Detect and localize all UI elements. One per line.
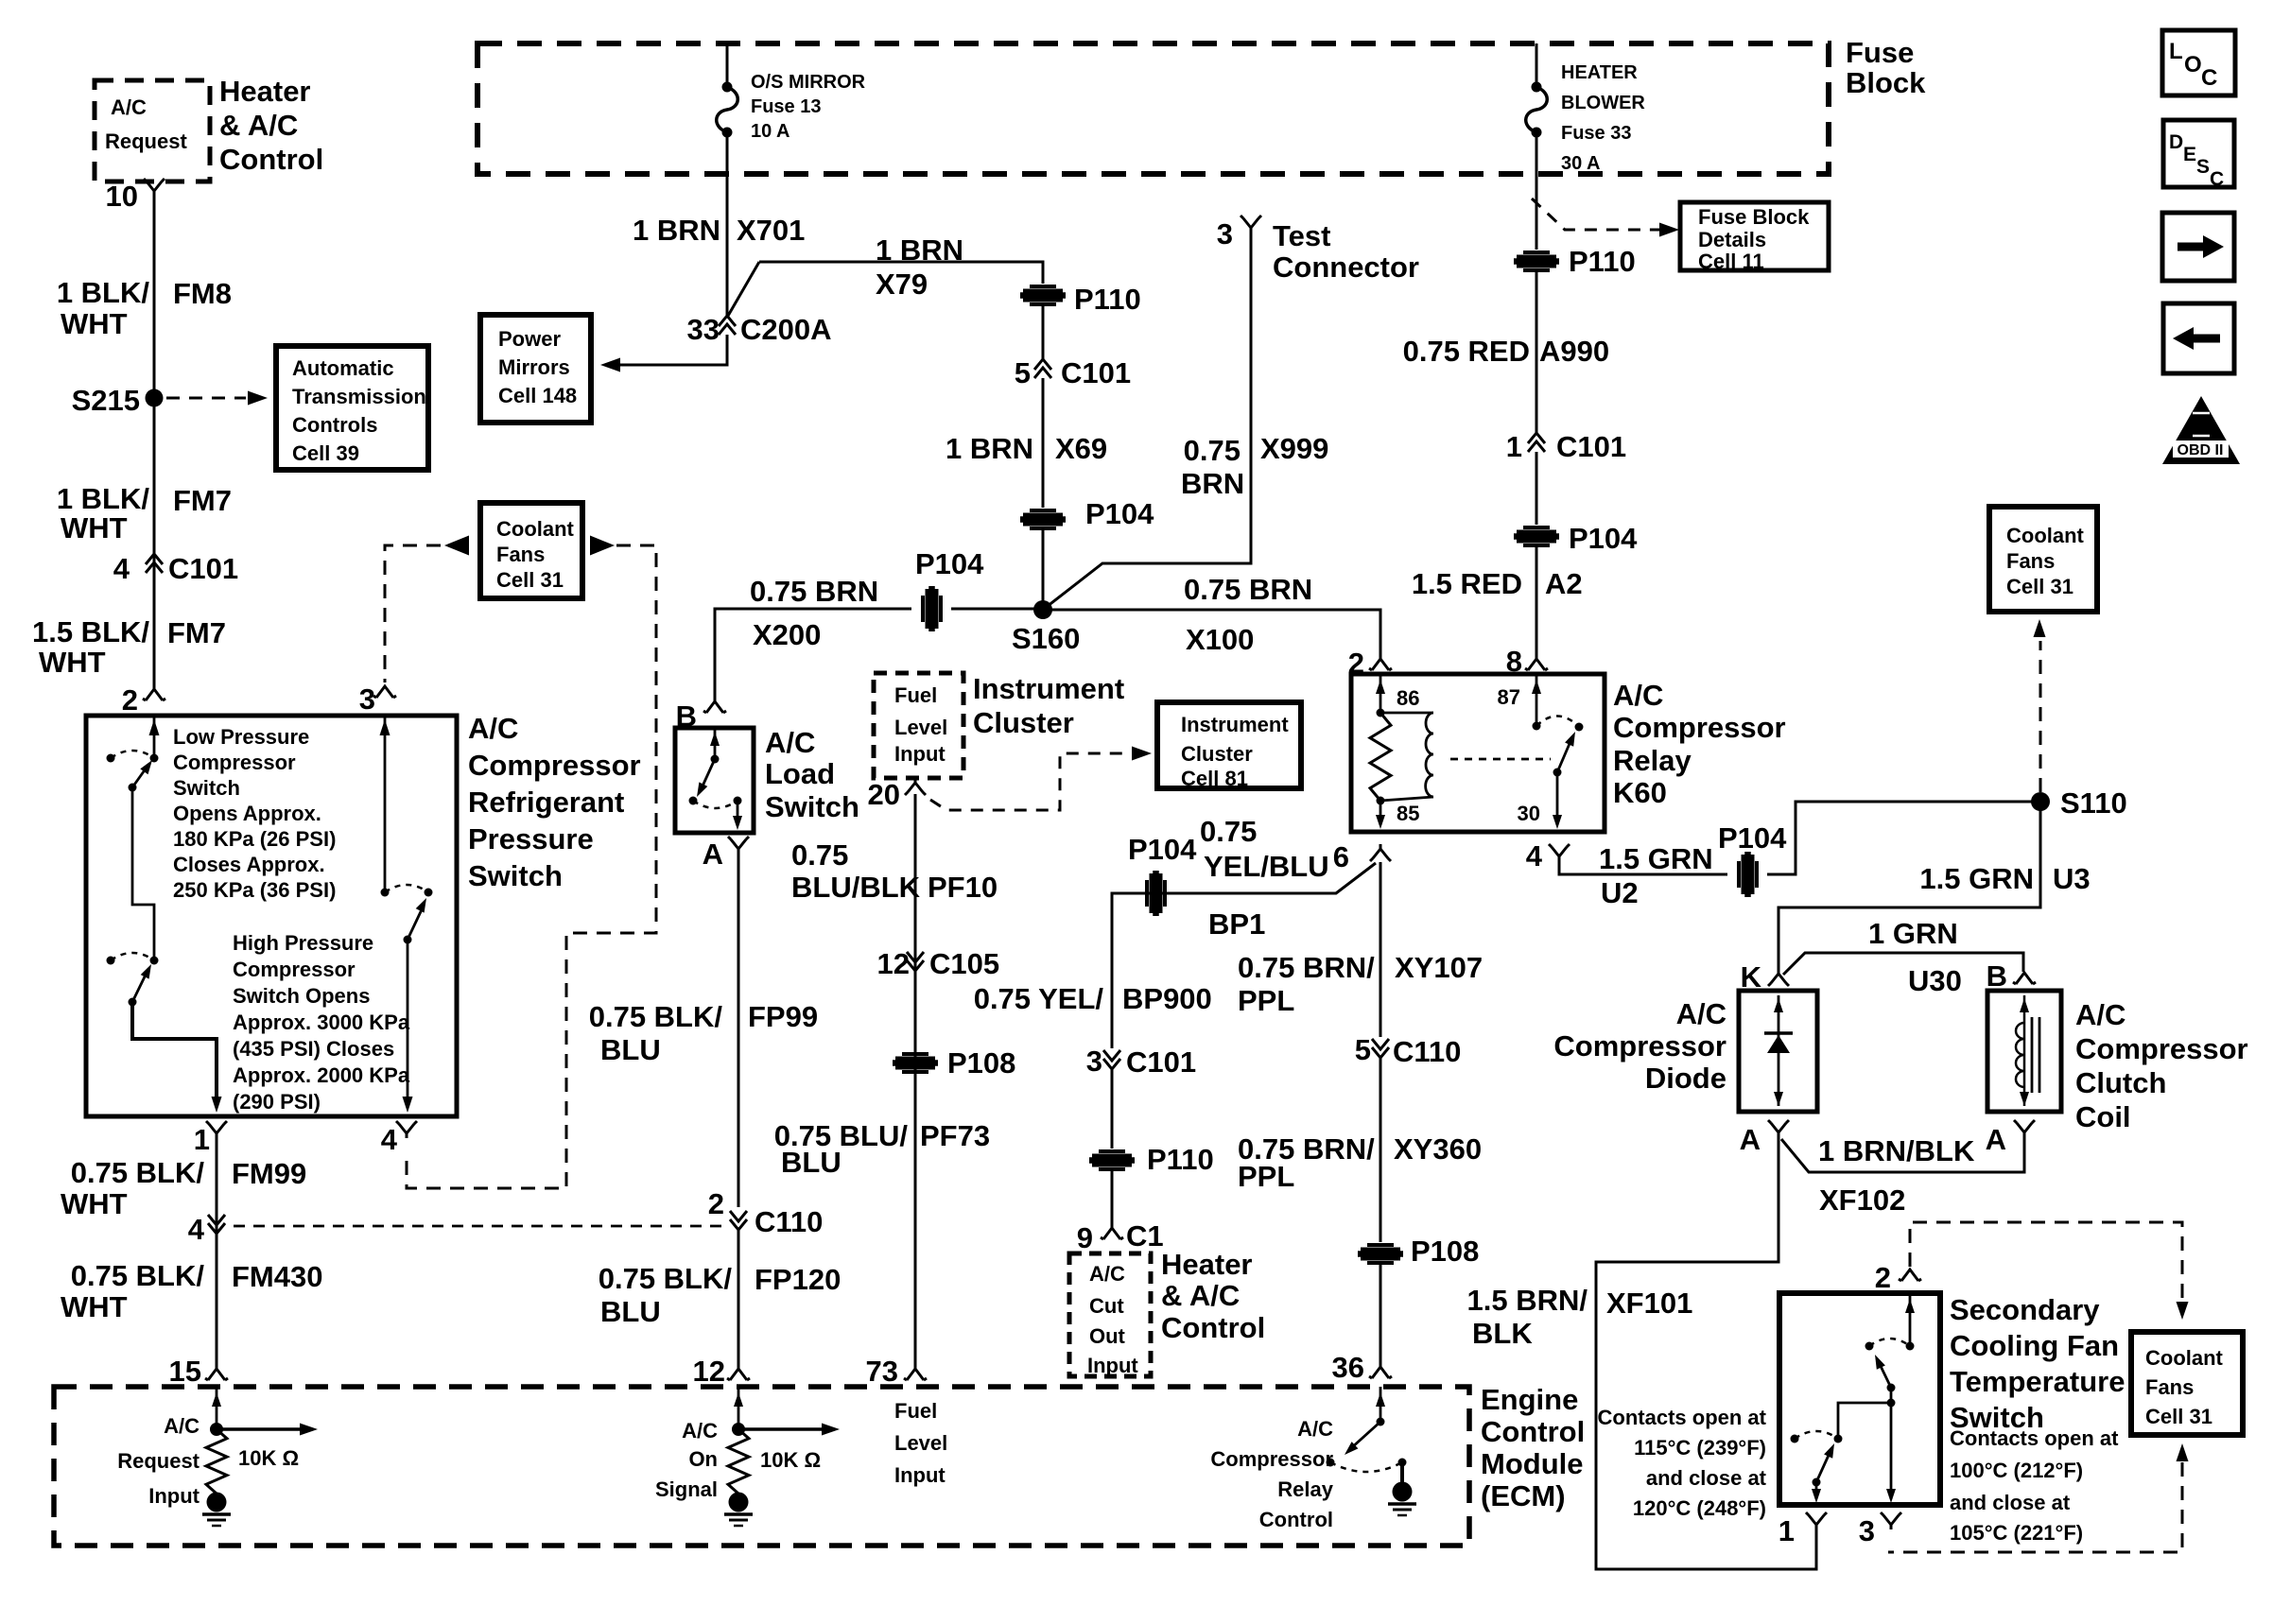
wire 0.75 BRN X999 xyxy=(1043,233,1251,610)
svg-text:On: On xyxy=(688,1447,718,1471)
node relay control contact left xyxy=(1327,1459,1335,1467)
svg-text:Cell 31: Cell 31 xyxy=(2145,1405,2212,1428)
wire fuse to P110 right xyxy=(1536,137,1538,250)
arrow A/C request input signal xyxy=(217,1424,318,1436)
dashed pointer fan switch to Coolant Fans xyxy=(1910,1222,2189,1320)
label 1 BLK/WHT FM7 xyxy=(57,482,232,544)
svg-text:Engine: Engine xyxy=(1481,1383,1578,1416)
pin 3 connector Test Connector (female) xyxy=(1241,216,1261,233)
svg-text:0.75 BLK/: 0.75 BLK/ xyxy=(71,1259,205,1292)
svg-text:A: A xyxy=(1986,1123,2006,1156)
wire 0.75 BLU/BLK PF10 fuel level xyxy=(914,794,917,1369)
label 0.75 BLU/BLK PF10 xyxy=(791,838,998,904)
svg-text:30: 30 xyxy=(1518,802,1540,825)
svg-text:4: 4 xyxy=(188,1213,205,1246)
box Automatic Transmission Controls Cell 39 xyxy=(276,346,428,470)
svg-text:II: II xyxy=(2196,416,2207,436)
label P104 above X200 xyxy=(915,547,984,580)
svg-text:12: 12 xyxy=(877,947,910,980)
component Fuse Block dashed box xyxy=(477,43,1829,174)
low pressure switch armature xyxy=(129,760,153,792)
label 85 xyxy=(1397,802,1419,825)
svg-text:Pressure: Pressure xyxy=(468,822,594,855)
node pin3 branch contact right xyxy=(425,889,433,897)
label S110 xyxy=(2060,786,2127,820)
wire XY360 to ECM pin 36 xyxy=(1379,1265,1382,1367)
svg-text:180 KPa (26 PSI): 180 KPa (26 PSI) xyxy=(173,827,336,851)
svg-text:Relay: Relay xyxy=(1277,1477,1333,1501)
pin 3 connector (male) xyxy=(373,686,396,698)
wire FM99/FM430 to ECM pin 15 xyxy=(216,1138,218,1369)
label Fuse Block Details Cell 11 xyxy=(1698,205,1810,273)
connector C110 pin 5 (in-line) xyxy=(1372,1039,1389,1058)
svg-text:4: 4 xyxy=(1526,839,1543,872)
node load switch pivot xyxy=(711,755,720,764)
label P108 XY360 xyxy=(1411,1235,1479,1268)
node relay coil top xyxy=(1377,709,1385,717)
label 33 C200A xyxy=(687,313,832,346)
svg-text:FM99: FM99 xyxy=(232,1157,306,1190)
connector C101 pin 3 (in-line) xyxy=(1103,1050,1120,1069)
node high pressure fixed contact right xyxy=(150,957,159,965)
svg-text:A/C: A/C xyxy=(1676,997,1726,1030)
grommet P110 on BP900 wire xyxy=(1089,1151,1135,1169)
label Fuel Level Input ECM xyxy=(894,1399,947,1487)
label pin B xyxy=(676,700,697,733)
svg-text:FM8: FM8 xyxy=(173,277,232,310)
wire fan switch to pin 1 xyxy=(1812,1482,1821,1503)
node low pressure fixed contact right xyxy=(150,754,159,763)
label pin 2 xyxy=(122,683,138,717)
wire FM8/FM7 vertical from Heater A/C Control to pressure switch xyxy=(153,196,156,689)
label pin 1 xyxy=(194,1123,210,1156)
svg-text:Coolant: Coolant xyxy=(2145,1346,2224,1370)
fan switch lower armature xyxy=(1813,1443,1835,1487)
svg-text:Control: Control xyxy=(1259,1508,1333,1531)
low pressure switch throw arc xyxy=(111,751,154,758)
diode element xyxy=(1764,995,1793,1106)
label Coolant Fans Cell 31 bottom xyxy=(2145,1346,2224,1428)
svg-text:Low Pressure: Low Pressure xyxy=(173,725,309,749)
connector C101 pin 1 (in-line) xyxy=(1528,433,1545,452)
svg-text:0.75 BLK/: 0.75 BLK/ xyxy=(589,1000,723,1033)
svg-text:0.75 YEL/: 0.75 YEL/ xyxy=(974,982,1104,1015)
svg-text:A/C: A/C xyxy=(765,726,815,759)
svg-text:0.75 BRN: 0.75 BRN xyxy=(1184,573,1312,606)
label A/C Compressor Refrigerant Pressure Switch xyxy=(468,712,641,892)
svg-text:S110: S110 xyxy=(2060,786,2127,820)
svg-text:S215: S215 xyxy=(72,384,140,417)
svg-text:Fuel: Fuel xyxy=(894,1399,937,1423)
label Power Mirrors Cell 148 xyxy=(498,327,577,407)
svg-text:Diode: Diode xyxy=(1645,1062,1726,1095)
svg-text:10K Ω: 10K Ω xyxy=(760,1448,821,1472)
svg-text:Cell 148: Cell 148 xyxy=(498,384,577,407)
label 1.5 RED A2 wire label xyxy=(1412,567,1583,600)
svg-text:Fuse Block: Fuse Block xyxy=(1698,205,1810,229)
label Fuse Block xyxy=(1846,36,1926,99)
box Power Mirrors Cell 148 xyxy=(480,315,591,423)
box Instrument Cluster Cell 81 xyxy=(1157,702,1301,788)
label 1.5 BLK/WHT FM7 xyxy=(32,615,226,679)
svg-text:Compressor: Compressor xyxy=(2075,1032,2248,1065)
wire relay coil terminal 85 xyxy=(1376,801,1385,829)
svg-text:Closes Approx.: Closes Approx. xyxy=(173,853,325,876)
label 0.75 BRN X200 xyxy=(750,575,878,651)
pin K connector (female) xyxy=(1768,969,1789,986)
label Secondary Cooling Fan Temperature Switch xyxy=(1950,1293,2126,1434)
grommet P104 on BP1 wire xyxy=(1147,871,1165,916)
svg-text:Fans: Fans xyxy=(496,543,545,566)
svg-text:Compressor: Compressor xyxy=(173,751,296,774)
svg-text:Level: Level xyxy=(894,716,947,739)
svg-text:U3: U3 xyxy=(2053,862,2091,895)
svg-text:Input: Input xyxy=(148,1484,200,1508)
node pin3 branch contact left xyxy=(381,889,390,897)
wire diagonal C200A to X79 run xyxy=(728,262,759,316)
svg-text:3: 3 xyxy=(1217,217,1233,251)
connector C101 pin 4 (in-line) xyxy=(146,554,163,573)
svg-text:Contacts open at: Contacts open at xyxy=(1598,1406,1767,1429)
component A/C Load Switch box xyxy=(675,728,754,833)
svg-text:250 KPa (36 PSI): 250 KPa (36 PSI) xyxy=(173,878,336,902)
label P104 xyxy=(1085,497,1154,530)
pin A connector clutch (female) xyxy=(2014,1120,2035,1137)
dashed pointer Coolant Fans to pin 4 xyxy=(407,545,656,1188)
wire low pressure to high pressure switch xyxy=(132,787,154,960)
label 1.5 GRN U3 xyxy=(1919,862,2090,895)
label P110 BP900 xyxy=(1147,1143,1214,1176)
svg-text:Automatic: Automatic xyxy=(292,356,394,380)
svg-text:B: B xyxy=(1987,959,2007,993)
label 0.75 BLU/ PF73 xyxy=(774,1119,990,1179)
load switch throw arc xyxy=(693,801,737,808)
label 86 xyxy=(1397,686,1419,710)
svg-text:P108: P108 xyxy=(1411,1235,1479,1268)
svg-text:WHT: WHT xyxy=(61,511,128,544)
pin3 switch armature xyxy=(404,898,427,944)
svg-text:85: 85 xyxy=(1397,802,1419,825)
svg-text:Compressor: Compressor xyxy=(233,958,356,981)
pin 3 connector fan switch (female) xyxy=(1881,1512,1901,1529)
svg-text:P104: P104 xyxy=(1569,522,1638,555)
label BP1 xyxy=(1208,907,1265,941)
svg-text:C101: C101 xyxy=(1126,1045,1196,1079)
svg-text:10K Ω: 10K Ω xyxy=(238,1446,299,1470)
svg-text:XY360: XY360 xyxy=(1394,1132,1482,1166)
splice S160 xyxy=(1033,600,1052,619)
svg-text:Cut: Cut xyxy=(1089,1294,1124,1318)
grommet P110 on A990 wire xyxy=(1514,252,1559,270)
svg-text:C110: C110 xyxy=(755,1205,823,1238)
svg-text:BLK: BLK xyxy=(1472,1317,1533,1350)
svg-text:Details: Details xyxy=(1698,228,1766,251)
svg-text:FM430: FM430 xyxy=(232,1260,322,1293)
svg-text:Clutch: Clutch xyxy=(2075,1066,2166,1099)
wire relay control to ground xyxy=(1400,1462,1404,1484)
pin 2 connector (male) pressure switch xyxy=(143,689,165,700)
label 1 GRN U30 xyxy=(1868,917,1962,997)
svg-text:& A/C: & A/C xyxy=(1161,1279,1240,1312)
label pin 3 fan switch xyxy=(1859,1514,1875,1547)
svg-text:Input: Input xyxy=(894,742,946,766)
fan switch upper armature xyxy=(1875,1355,1896,1392)
label 1 BRN X69 xyxy=(946,432,1107,465)
label 0.75 BRN X999 xyxy=(1181,432,1328,500)
svg-text:S160: S160 xyxy=(1012,622,1080,655)
label pin 2 fan switch xyxy=(1875,1261,1891,1294)
grommet P104 on A2 wire xyxy=(1514,527,1559,545)
dashed pointer S215 to Automatic Transmission Controls xyxy=(166,391,268,406)
svg-text:Test: Test xyxy=(1273,219,1330,252)
svg-text:2: 2 xyxy=(1875,1261,1891,1294)
svg-text:P104: P104 xyxy=(915,547,984,580)
svg-text:3: 3 xyxy=(1086,1045,1102,1078)
svg-text:0.75 BRN: 0.75 BRN xyxy=(750,575,878,608)
label A/C Load Switch xyxy=(765,726,859,823)
pin B connector clutch (male) xyxy=(2013,973,2036,984)
node relay coil bottom xyxy=(1377,797,1385,805)
svg-text:X100: X100 xyxy=(1186,623,1254,656)
label pin K xyxy=(1741,960,1762,993)
svg-text:3: 3 xyxy=(359,682,375,716)
svg-text:C101: C101 xyxy=(1061,356,1131,389)
svg-text:K60: K60 xyxy=(1613,776,1667,809)
label Automatic Transmission Controls Cell 39 xyxy=(292,356,426,465)
label contacts open 100C xyxy=(1950,1426,2119,1545)
label A/C Compressor Relay Control xyxy=(1210,1417,1333,1531)
wire 1 BRN/BLK XF102 xyxy=(1781,1137,2024,1172)
wire 0.75 RED A990 xyxy=(1536,272,1538,433)
component A/C Compressor Diode box xyxy=(1739,991,1817,1112)
relay armature xyxy=(1553,732,1576,777)
svg-text:1 GRN: 1 GRN xyxy=(1868,917,1958,950)
relay control throw arc xyxy=(1330,1462,1402,1472)
svg-text:Cell 39: Cell 39 xyxy=(292,441,359,465)
svg-text:PPL: PPL xyxy=(1238,984,1294,1017)
svg-text:E: E xyxy=(2183,144,2196,165)
svg-text:Relay: Relay xyxy=(1613,744,1692,777)
svg-text:Fuel: Fuel xyxy=(894,683,937,707)
svg-text:33: 33 xyxy=(687,313,720,346)
label Coolant Fans Cell 31 left xyxy=(496,517,575,592)
svg-text:Transmission: Transmission xyxy=(292,385,426,408)
wire BP900 below C101 xyxy=(1111,1069,1114,1149)
svg-text:Approx. 2000 KPa: Approx. 2000 KPa xyxy=(233,1063,410,1087)
pin 9 connector C1 (male) xyxy=(1101,1228,1123,1239)
box Coolant Fans Cell 31 right xyxy=(1989,507,2097,612)
ground A/C compressor relay control xyxy=(1388,1482,1416,1516)
svg-text:Fuse 13: Fuse 13 xyxy=(751,96,821,117)
connector C110 pin 2 (in-line) xyxy=(730,1211,747,1230)
svg-text:Signal: Signal xyxy=(655,1477,718,1501)
svg-text:1.5 GRN: 1.5 GRN xyxy=(1599,842,1713,875)
svg-text:Control: Control xyxy=(1161,1311,1265,1344)
label pin B clutch xyxy=(1987,959,2007,993)
ground A/C on signal resistor xyxy=(724,1493,753,1527)
svg-text:1.5 BLK/: 1.5 BLK/ xyxy=(32,615,149,648)
label 5 C110 xyxy=(1355,1033,1462,1068)
svg-text:36: 36 xyxy=(1332,1351,1364,1384)
svg-text:X79: X79 xyxy=(876,268,928,301)
svg-text:(435 PSI) Closes: (435 PSI) Closes xyxy=(233,1037,394,1061)
connector C101 pin 5 (in-line) xyxy=(1034,359,1051,378)
wire X69 below P104 to S160 xyxy=(1042,530,1045,610)
label pin 4 relay xyxy=(1526,839,1543,872)
label Instrument Cluster xyxy=(973,672,1124,739)
label pin 6 relay xyxy=(1333,840,1349,873)
svg-text:FP99: FP99 xyxy=(748,1000,818,1033)
svg-text:Cell 31: Cell 31 xyxy=(496,568,564,592)
node high pressure fixed contact left xyxy=(107,957,115,965)
label 0.75 BLK/WHT FM430 xyxy=(61,1259,322,1323)
clutch coil element xyxy=(2016,995,2039,1106)
node relay contact 87 xyxy=(1533,722,1541,731)
svg-text:1 BRN/BLK: 1 BRN/BLK xyxy=(1818,1134,1975,1167)
svg-text:Input: Input xyxy=(894,1463,946,1487)
node fan switch upper contact right xyxy=(1906,1342,1915,1351)
svg-text:C: C xyxy=(2201,65,2217,91)
label 1 BRN X701 xyxy=(633,214,805,247)
svg-text:C105: C105 xyxy=(929,947,999,980)
label 9 C1 xyxy=(1077,1219,1164,1254)
svg-text:115°C (239°F): 115°C (239°F) xyxy=(1634,1436,1766,1460)
node relay control pivot xyxy=(1377,1418,1385,1426)
svg-text:C1: C1 xyxy=(1126,1219,1164,1253)
dashed relay actuation link xyxy=(1450,758,1551,761)
label Heater & A/C Control bottom xyxy=(1161,1248,1265,1344)
label High Pressure Compressor Switch data xyxy=(233,931,410,1114)
svg-text:Power: Power xyxy=(498,327,561,351)
pin 2 connector fan switch (male) xyxy=(1899,1270,1921,1281)
wire pin3 armature to pin 4 xyxy=(403,940,413,1113)
label P104 U2 xyxy=(1718,821,1787,855)
svg-text:A/C: A/C xyxy=(1089,1262,1125,1286)
svg-text:Switch: Switch xyxy=(468,859,563,892)
svg-text:12: 12 xyxy=(693,1355,725,1388)
pin 36 connector (male) xyxy=(1369,1367,1392,1378)
svg-text:BP900: BP900 xyxy=(1122,982,1212,1015)
pin 12 connector (male) xyxy=(727,1369,750,1380)
svg-text:A: A xyxy=(703,838,723,871)
label pin 15 xyxy=(169,1355,201,1388)
wire relay terminal 87 xyxy=(1532,674,1541,726)
wire fan switch link xyxy=(1838,1388,1896,1439)
svg-text:Heater: Heater xyxy=(1161,1248,1253,1281)
node fan switch upper contact left xyxy=(1865,1342,1874,1351)
svg-text:15: 15 xyxy=(169,1355,201,1388)
svg-text:Contacts open at: Contacts open at xyxy=(1950,1426,2119,1450)
svg-text:FM7: FM7 xyxy=(173,484,232,517)
wire C101 to P104 right xyxy=(1536,452,1538,525)
svg-text:O: O xyxy=(2184,52,2202,78)
svg-text:BLOWER: BLOWER xyxy=(1561,93,1645,113)
label 1 BLK/WHT FM8 xyxy=(57,276,232,340)
wire 1 GRN U30 xyxy=(1783,953,2023,975)
node A/C request input junction xyxy=(210,1423,223,1436)
svg-text:PPL: PPL xyxy=(1238,1160,1294,1193)
svg-text:High Pressure: High Pressure xyxy=(233,931,373,955)
label pin A xyxy=(703,838,723,871)
svg-text:120°C (248°F): 120°C (248°F) xyxy=(1633,1496,1766,1520)
svg-text:BRN: BRN xyxy=(1181,467,1244,500)
label 0.75 YEL/ BP900 xyxy=(974,982,1212,1015)
svg-text:PF73: PF73 xyxy=(920,1119,990,1152)
label 10K ohm right xyxy=(760,1448,821,1472)
connector C105 pin 12 (in-line) xyxy=(907,952,924,971)
svg-text:Control: Control xyxy=(1481,1415,1585,1448)
svg-text:105°C (221°F): 105°C (221°F) xyxy=(1950,1521,2083,1545)
svg-text:Secondary: Secondary xyxy=(1950,1293,2100,1326)
label 1.5 GRN U2 xyxy=(1599,842,1713,909)
pin 6 connector relay (female) xyxy=(1370,844,1391,861)
svg-text:A/C: A/C xyxy=(1297,1417,1333,1441)
grommet P104 on X69 wire xyxy=(1020,510,1066,528)
svg-text:XF102: XF102 xyxy=(1819,1183,1905,1217)
svg-text:A/C: A/C xyxy=(2075,998,2126,1031)
label HEATER BLOWER Fuse 33 30 A xyxy=(1561,62,1645,174)
wire U2 to S110 xyxy=(1767,802,2033,874)
label Heater & A/C Control xyxy=(219,75,323,176)
label S160 xyxy=(1012,622,1080,655)
label contacts open 115C xyxy=(1598,1406,1767,1520)
label 1 C101 xyxy=(1506,430,1626,463)
wire 1.5 GRN U3 xyxy=(1778,802,2040,970)
node low pressure fixed contact left xyxy=(107,754,115,763)
wire 0.75 BRN X200 xyxy=(715,609,911,703)
svg-text:Control: Control xyxy=(219,143,323,176)
wire X701 from fuse to C200A xyxy=(726,137,729,316)
svg-text:1: 1 xyxy=(1506,430,1522,463)
svg-text:X701: X701 xyxy=(737,214,805,247)
wire X200 to S160 xyxy=(951,608,1043,611)
connector C200A pin 33 (in-line) xyxy=(719,316,736,335)
svg-text:WHT: WHT xyxy=(39,646,106,679)
svg-text:C101: C101 xyxy=(1556,430,1626,463)
svg-text:2: 2 xyxy=(122,683,138,717)
dashed connector line C110 xyxy=(234,1225,724,1228)
svg-text:86: 86 xyxy=(1397,686,1419,710)
svg-text:Cooling Fan: Cooling Fan xyxy=(1950,1329,2119,1362)
svg-text:Cell 11: Cell 11 xyxy=(1698,250,1764,273)
svg-text:5: 5 xyxy=(1015,356,1031,389)
svg-text:Cluster: Cluster xyxy=(1181,742,1253,766)
label 0.75 BRN/PPL XY107 xyxy=(1238,951,1483,1017)
svg-text:C: C xyxy=(2210,168,2224,190)
svg-text:Coolant: Coolant xyxy=(496,517,575,541)
pin 15 connector (male) xyxy=(205,1369,228,1380)
svg-text:FP120: FP120 xyxy=(755,1263,841,1296)
pin 1 connector (female) xyxy=(206,1121,227,1138)
svg-text:4: 4 xyxy=(113,552,130,585)
fan switch lower throw arc xyxy=(1795,1431,1838,1439)
svg-text:Block: Block xyxy=(1846,66,1926,99)
svg-text:(290 PSI): (290 PSI) xyxy=(233,1090,321,1114)
box Coolant Fans Cell 31 bottom xyxy=(2131,1332,2243,1435)
wire 1.5 GRN U2 xyxy=(1559,861,1727,874)
wire load switch input xyxy=(710,728,720,759)
label pin 2 relay xyxy=(1348,647,1364,680)
svg-text:FM7: FM7 xyxy=(167,616,226,649)
component Heater & A/C Control - A/C Request dashed box xyxy=(95,80,210,181)
svg-text:Compressor: Compressor xyxy=(468,749,641,782)
svg-text:0.75: 0.75 xyxy=(1200,815,1257,848)
svg-text:Compressor: Compressor xyxy=(1553,1029,1726,1063)
svg-text:Request: Request xyxy=(117,1449,200,1473)
dashed pointer S110 to Coolant Fans xyxy=(2034,619,2046,792)
label pin 20 xyxy=(868,778,900,811)
pin A connector (female) xyxy=(728,837,749,854)
